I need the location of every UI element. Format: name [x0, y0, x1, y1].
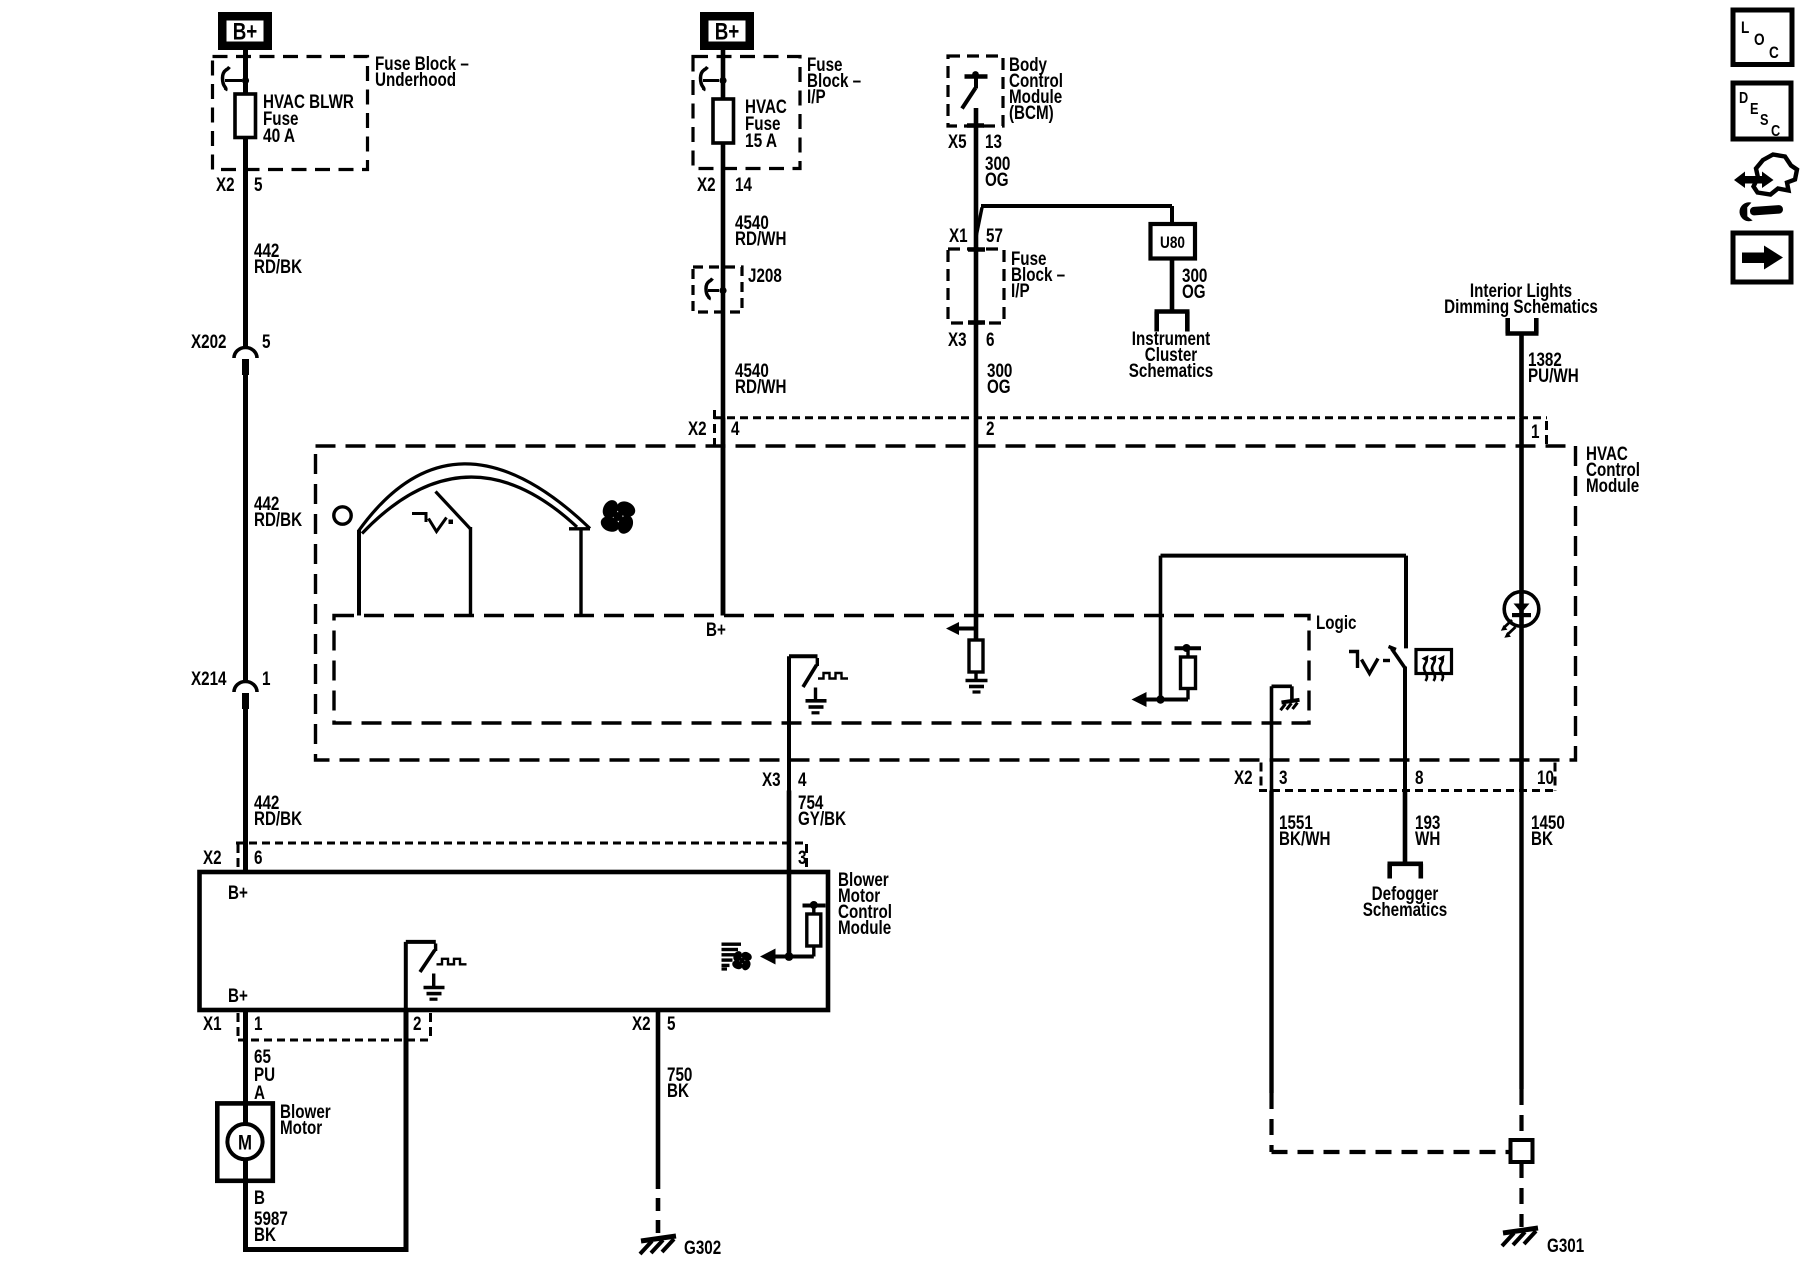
wire 1382 PU/WH to HVAC pin 1 [1519, 334, 1524, 418]
svg-text:OG: OG [1182, 282, 1206, 303]
wire motor return to X1-2 [243, 1010, 409, 1252]
svg-text:X1: X1 [949, 226, 968, 247]
svg-text:A: A [254, 1083, 265, 1104]
connector X214 pin 1 [191, 669, 271, 709]
wire 1450 BK from pin 10 [1519, 791, 1523, 1090]
svg-text:O: O [1754, 30, 1765, 49]
power symbol B+ (I/P feed) [700, 12, 754, 50]
connector row X1 (module bottom) [238, 1013, 431, 1040]
svg-text:Motor: Motor [280, 1118, 323, 1139]
switch position circle (off) [334, 507, 351, 524]
connector row X2 (HVAC bottom) [1259, 763, 1557, 792]
svg-text:15 A: 15 A [745, 131, 777, 152]
svg-text:8: 8 [1415, 768, 1424, 789]
SEC3 [200, 870, 893, 1259]
svg-text:PU/WH: PU/WH [1528, 366, 1579, 387]
off-page fork to Defogger Schematics [1388, 864, 1424, 879]
svg-text:B+: B+ [715, 19, 740, 46]
ground splice connector (square) [1511, 1140, 1533, 1162]
svg-text:14: 14 [735, 175, 752, 196]
SEC4 [1733, 10, 1797, 282]
Blower Motor Control Module (solid box) [200, 872, 829, 1010]
svg-text:U80: U80 [1160, 233, 1185, 252]
wire BCM X5 pin 13 down [974, 108, 979, 250]
svg-text:RD/WH: RD/WH [735, 377, 787, 398]
svg-text:1: 1 [254, 1014, 263, 1035]
svg-text:OG: OG [985, 170, 1009, 191]
dashed link to ground splice [1272, 1150, 1511, 1154]
svg-text:6: 6 [254, 848, 263, 869]
svg-text:RD/WH: RD/WH [735, 229, 787, 250]
resistor (pin2 pulldown) [969, 640, 983, 672]
ground G301 [1502, 1228, 1538, 1246]
PWM ground switch (module internal) [406, 942, 467, 1010]
svg-text:B+: B+ [228, 883, 248, 904]
fuse block pin bars [968, 247, 985, 252]
svg-text:Module: Module [1586, 476, 1639, 497]
svg-text:OG: OG [987, 377, 1011, 398]
fan icon (HVAC blower) [598, 498, 637, 537]
nav icon vehicle/wrench [1734, 155, 1797, 222]
wire 193 WH from pin 8 [1403, 791, 1408, 863]
rear defog indicator icon [1416, 650, 1452, 682]
svg-text:J208: J208 [748, 266, 782, 287]
svg-text:X2: X2 [1234, 768, 1253, 789]
blower motor M [217, 1102, 331, 1181]
svg-text:(BCM): (BCM) [1009, 103, 1054, 124]
connector row X2 (blower module top) [236, 843, 808, 874]
wire U80 down [1170, 259, 1175, 312]
svg-text:B+: B+ [233, 19, 258, 46]
ground (logic, chassis ref) [1272, 686, 1300, 710]
svg-text:S: S [1760, 112, 1769, 129]
svg-text:X214: X214 [191, 669, 227, 690]
svg-text:C: C [1769, 43, 1779, 62]
svg-text:Module: Module [838, 918, 891, 939]
svg-text:X5: X5 [948, 132, 967, 153]
wire through fuse block to pin 2 [974, 249, 979, 418]
variable speed fan icon [722, 943, 742, 971]
svg-text:57: 57 [986, 226, 1003, 247]
svg-text:BK: BK [1531, 829, 1553, 850]
wire fuse to X2 pin 5 [243, 137, 248, 348]
wire X202 to X214 [243, 375, 248, 682]
BCM output pin bar [967, 123, 984, 128]
svg-text:GY/BK: GY/BK [798, 809, 846, 830]
nav icon LOC [1733, 10, 1792, 65]
svg-text:X2: X2 [203, 848, 222, 869]
svg-text:Schematics: Schematics [1363, 900, 1448, 921]
splice J208 (dashed box) [693, 266, 782, 312]
svg-text:C: C [1771, 123, 1781, 140]
resistor (logic, defog sense) with supply tap [1175, 644, 1202, 700]
svg-text:X2: X2 [632, 1014, 651, 1035]
svg-text:BK/WH: BK/WH [1279, 829, 1331, 850]
wire X2-5 ground path 750 BK [656, 1010, 661, 1176]
svg-text:I/P: I/P [807, 87, 826, 108]
wire fuse to J208 [721, 143, 726, 267]
wire pin 2 input with sense arrow [946, 418, 976, 640]
svg-text:E: E [1750, 101, 1759, 118]
svg-text:B+: B+ [228, 986, 248, 1007]
wire X214 to blower motor control module [243, 709, 248, 872]
Fuse Block - I/P (dashed box) [693, 57, 800, 169]
wire pin 3 input (speed command) [787, 872, 792, 957]
svg-text:RD/BK: RD/BK [254, 510, 302, 531]
svg-text:D: D [1739, 90, 1748, 107]
svg-text:RD/BK: RD/BK [254, 257, 302, 278]
switch inner arc [362, 477, 577, 533]
SEC1 [693, 12, 861, 616]
svg-text:BK: BK [667, 1081, 689, 1102]
svg-text:RD/BK: RD/BK [254, 809, 302, 830]
HVAC Control Module (outer dashed box) [316, 446, 1576, 760]
wire 1551 BK/WH from pin 3 [1269, 791, 1273, 1094]
wire pin 4 into module, ends at logic box [721, 418, 726, 616]
svg-text:X2: X2 [688, 419, 707, 440]
svg-text:3: 3 [1279, 768, 1288, 789]
svg-text:10: 10 [1537, 768, 1554, 789]
SEC2 [316, 410, 1641, 872]
switch outer arc [359, 464, 591, 531]
svg-text:X3: X3 [762, 770, 781, 791]
svg-text:2: 2 [413, 1014, 422, 1035]
Fuse Block - I/P (lower dashed box) [948, 249, 1004, 323]
power symbol B+ (underhood feed) [218, 12, 272, 50]
command sense line with arrow to fan driver [760, 949, 814, 965]
svg-text:40 A: 40 A [263, 126, 295, 147]
svg-text:3: 3 [798, 848, 807, 869]
wire ground to pin 3 [1270, 686, 1274, 790]
Fuse Block - Underhood (dashed box) [213, 57, 368, 170]
svg-text:5: 5 [667, 1014, 676, 1035]
svg-text:M: M [238, 1132, 252, 1155]
Logic (inner dashed box) [334, 616, 1309, 724]
ground G302 [640, 1236, 676, 1254]
svg-text:I/P: I/P [1011, 281, 1030, 302]
resistor (command pull-up) [803, 901, 826, 957]
svg-text:13: 13 [985, 132, 1002, 153]
svg-text:5: 5 [254, 175, 263, 196]
svg-text:4: 4 [731, 419, 740, 440]
defogger switch (logic) [1349, 556, 1406, 791]
branch wire to U80 [976, 206, 1172, 237]
logic interconnect wire [1161, 556, 1407, 700]
sense line with arrow (to logic) [1132, 692, 1189, 707]
svg-text:X202: X202 [191, 332, 227, 353]
svg-text:6: 6 [986, 330, 995, 351]
svg-text:BK: BK [254, 1225, 276, 1246]
LED (panel illumination) [1501, 592, 1539, 638]
svg-text:X1: X1 [203, 1014, 222, 1035]
svg-text:1: 1 [1531, 422, 1540, 443]
fuse U80 box [1151, 224, 1196, 259]
svg-text:G302: G302 [684, 1238, 721, 1259]
svg-text:Logic: Logic [1316, 613, 1357, 634]
svg-text:X3: X3 [948, 330, 967, 351]
wire pin 1 through LED to pin 10 [1519, 418, 1524, 791]
wire X1-1 to blower motor [243, 1010, 248, 1124]
switch left leg [357, 530, 361, 616]
svg-text:WH: WH [1415, 829, 1440, 850]
switch right leg [579, 529, 582, 616]
wiper pivot marks [412, 514, 426, 523]
off-page fork to Instrument Cluster Schematics [1155, 312, 1190, 332]
svg-text:Dimming Schematics: Dimming Schematics [1444, 297, 1598, 318]
svg-text:Schematics: Schematics [1129, 361, 1214, 382]
ground (logic, pin2) [966, 672, 988, 692]
fuse HVAC BLWR 40 A [243, 94, 248, 138]
PWM output switch (logic, X3-4) [789, 656, 848, 790]
wire X3-4 to blower module pin 3 [787, 791, 792, 873]
connector terminal hook (fuse block underhood) [223, 67, 250, 91]
svg-text:1: 1 [262, 669, 271, 690]
svg-text:X2: X2 [216, 175, 235, 196]
svg-text:L: L [1741, 18, 1749, 37]
Body Control Module BCM (dashed box) [948, 56, 1003, 126]
wire J208 to HVAC control module pin 4 [721, 267, 726, 616]
svg-text:2: 2 [986, 419, 995, 440]
svg-text:B: B [254, 1188, 265, 1209]
svg-text:X2: X2 [697, 175, 716, 196]
svg-text:B+: B+ [706, 620, 726, 641]
wire B+ to fuse HVAC BLWR [243, 50, 248, 94]
svg-text:5: 5 [262, 332, 271, 353]
connector row X2 (HVAC top) [714, 410, 1547, 446]
connector X202 pin 5 [191, 332, 271, 375]
nav icon DESC [1733, 83, 1791, 140]
switch wiper blade [436, 492, 471, 530]
fan speed switch (rotary) [334, 464, 590, 616]
fuse HVAC 15 A [721, 99, 726, 143]
svg-text:Underhood: Underhood [375, 70, 456, 91]
nav icon forward arrow [1733, 233, 1791, 282]
svg-text:G301: G301 [1547, 1236, 1585, 1257]
wire B+ to fuse block I/P [721, 50, 726, 99]
connector terminal hook (fuse block I/P) [701, 67, 727, 91]
svg-text:4: 4 [798, 770, 807, 791]
BCM internal switch [962, 71, 988, 108]
